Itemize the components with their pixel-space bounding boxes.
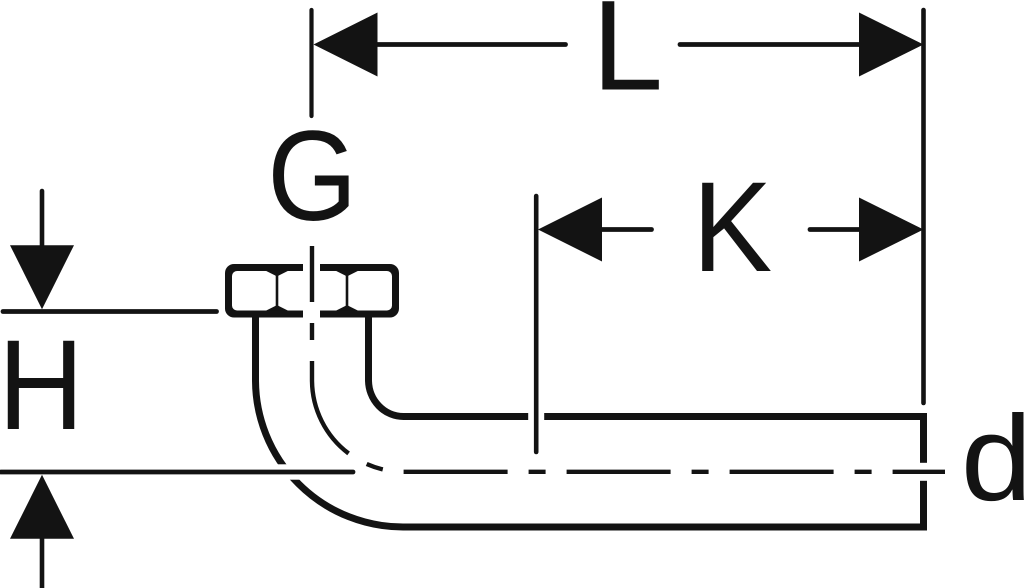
svg-text:H: H	[0, 314, 84, 457]
svg-text:K: K	[692, 156, 772, 299]
svg-text:d: d	[961, 391, 1024, 526]
svg-text:L: L	[592, 0, 663, 118]
svg-text:G: G	[267, 105, 357, 248]
